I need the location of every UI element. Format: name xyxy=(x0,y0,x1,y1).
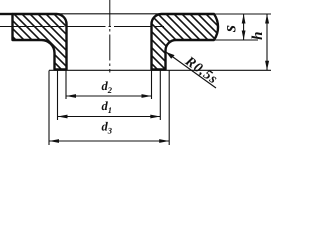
top surface stub left of part edge xyxy=(0,13,13,15)
R0,5s leader and arrow xyxy=(166,52,216,88)
d2 dimension line xyxy=(66,95,152,97)
right sheet cross-section hatch xyxy=(152,14,219,70)
d3 dimension line xyxy=(49,140,169,142)
thin extension of sheet bottom to the right (for s) xyxy=(215,39,258,41)
right sheet outline xyxy=(152,14,219,70)
d2 extension lines xyxy=(65,71,67,100)
h dimension xyxy=(266,14,268,70)
thin line under collar rim across (h extension) xyxy=(49,69,271,71)
thin extension of top surface to the right (for s and h) xyxy=(215,13,271,15)
left sheet cross-section hatch xyxy=(13,14,67,70)
d1 dimension line xyxy=(58,116,161,118)
left sheet outline xyxy=(13,14,67,70)
svg-text:s: s xyxy=(220,25,240,33)
s dimension xyxy=(243,14,245,40)
svg-text:h: h xyxy=(250,32,266,40)
horizontal centerline (sheet middle plane) xyxy=(0,26,65,28)
vertical centerline (axis) xyxy=(109,0,111,73)
far-side hole top edge across opening xyxy=(57,13,161,15)
d1 extension lines xyxy=(57,71,59,121)
d3 extension lines xyxy=(48,71,50,146)
